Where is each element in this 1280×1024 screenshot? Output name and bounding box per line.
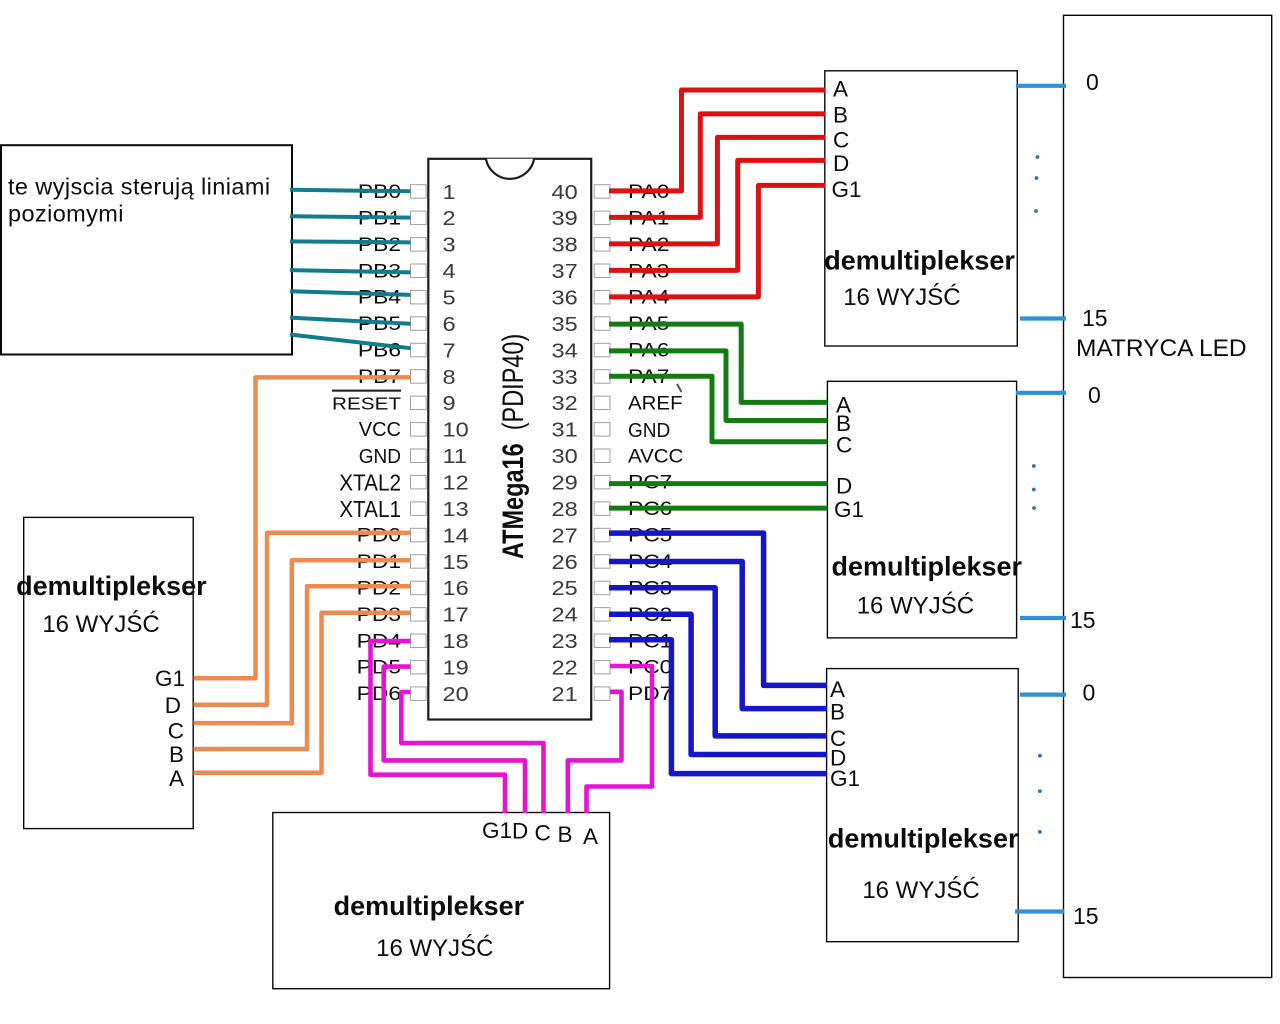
svg-text:PD6: PD6 bbox=[357, 684, 401, 705]
pin 30 (AVCC) bbox=[552, 445, 684, 468]
wire PB7 -> U6 G1 bbox=[194, 377, 411, 678]
pin 22 (PC0) bbox=[552, 656, 673, 679]
pin 28 (PC6) bbox=[552, 497, 673, 520]
pin 8 (PB7) bbox=[358, 365, 456, 388]
pin 25 (PC3) bbox=[552, 577, 673, 600]
wire U3 output 15 bbox=[1020, 607, 1096, 633]
svg-text:AVCC: AVCC bbox=[628, 446, 683, 467]
wire PA2 -> U2 C bbox=[609, 137, 825, 244]
pin 35 (PA5) bbox=[552, 312, 670, 335]
pin 40 (PA0) bbox=[552, 180, 670, 203]
svg-text:22: 22 bbox=[552, 656, 578, 679]
U5 input labels G1 D C B A (top edge) bbox=[482, 818, 598, 849]
wire PC7 -> U3 D bbox=[609, 481, 828, 486]
svg-text:15: 15 bbox=[1073, 903, 1099, 929]
svg-text:C: C bbox=[836, 432, 852, 457]
pin 15 (PD1) bbox=[357, 550, 469, 573]
svg-text:31: 31 bbox=[552, 418, 578, 441]
svg-text:D: D bbox=[836, 473, 852, 498]
svg-text:0: 0 bbox=[1088, 382, 1101, 408]
svg-text:16: 16 bbox=[443, 577, 469, 600]
svg-text:7: 7 bbox=[443, 339, 456, 362]
wire PC5 -> U4 A bbox=[609, 533, 827, 685]
svg-text:1: 1 bbox=[443, 180, 456, 203]
svg-text:AREF: AREF bbox=[628, 393, 683, 414]
svg-text:12: 12 bbox=[443, 471, 469, 494]
svg-text:0: 0 bbox=[1083, 680, 1096, 706]
svg-text:D: D bbox=[512, 819, 528, 844]
svg-text:XTAL2: XTAL2 bbox=[339, 469, 401, 495]
pin 7 (PB6) bbox=[358, 339, 456, 362]
svg-text:A: A bbox=[830, 677, 845, 702]
svg-text:B: B bbox=[558, 822, 573, 847]
svg-text:GND: GND bbox=[628, 419, 670, 442]
svg-text:20: 20 bbox=[443, 682, 469, 705]
wire PD6 -> U5 C bbox=[401, 692, 543, 813]
svg-text:VCC: VCC bbox=[359, 419, 401, 441]
pin 32 (AREF) bbox=[552, 392, 683, 415]
pin 18 (PD4) bbox=[357, 630, 469, 653]
svg-text:18: 18 bbox=[443, 630, 469, 653]
svg-text:C: C bbox=[168, 719, 184, 744]
pin 4 (PB3) bbox=[358, 260, 456, 283]
pin 39 (PA1) bbox=[552, 207, 670, 230]
svg-text:13: 13 bbox=[443, 497, 469, 520]
svg-text:16 WYJŚĆ: 16 WYJŚĆ bbox=[376, 934, 493, 962]
svg-text:15: 15 bbox=[443, 550, 469, 573]
demultiplexer U3 (middle right) bbox=[827, 381, 1022, 638]
pin 17 (PD3) bbox=[357, 603, 469, 626]
wire PD3 -> U6 A bbox=[194, 613, 411, 773]
wire PB5 (row driver 5) bbox=[290, 318, 411, 324]
svg-text:29: 29 bbox=[552, 471, 578, 494]
svg-text:21: 21 bbox=[552, 682, 578, 705]
pin 23 (PC1) bbox=[552, 630, 673, 653]
wire PA0 -> U2 A bbox=[609, 90, 825, 191]
svg-text:te wyjscia sterują liniami: te wyjscia sterują liniami bbox=[8, 174, 270, 200]
pin 36 (PA4) bbox=[552, 286, 670, 309]
pin 12 (XTAL2) bbox=[339, 469, 468, 495]
svg-text:30: 30 bbox=[552, 445, 578, 468]
svg-text:A: A bbox=[833, 76, 848, 101]
pin 10 (VCC) bbox=[359, 418, 469, 441]
wire U2 output 15 bbox=[1020, 305, 1108, 331]
svg-text:15: 15 bbox=[1082, 305, 1108, 331]
svg-text:8: 8 bbox=[443, 365, 456, 388]
svg-text:demultiplekser: demultiplekser bbox=[828, 824, 1019, 854]
ellipsis dots (outputs 1..14 of U3) bbox=[1032, 464, 1036, 510]
svg-text:PB2: PB2 bbox=[358, 235, 401, 256]
wire U3 output 0 bbox=[1016, 382, 1101, 408]
wire PD2 -> U6 B bbox=[194, 586, 411, 749]
pin 14 (PD0) bbox=[357, 524, 469, 547]
svg-text:39: 39 bbox=[552, 207, 578, 230]
svg-text:37: 37 bbox=[552, 260, 578, 283]
svg-text:B: B bbox=[833, 103, 848, 128]
svg-text:17: 17 bbox=[443, 603, 469, 626]
svg-text:35: 35 bbox=[552, 312, 578, 335]
LED matrix box MATRYCA LED bbox=[1064, 15, 1272, 977]
wire PC0 -> U5 A bbox=[587, 666, 653, 813]
wire PC6 -> U3 G1 bbox=[609, 506, 828, 511]
svg-text:2: 2 bbox=[443, 207, 456, 230]
svg-text:D: D bbox=[165, 693, 181, 718]
wire PD1 -> U6 C bbox=[194, 560, 411, 723]
svg-text:demultiplekser: demultiplekser bbox=[824, 246, 1015, 276]
svg-text:G1: G1 bbox=[482, 818, 512, 843]
svg-text:16 WYJŚĆ: 16 WYJŚĆ bbox=[42, 610, 159, 638]
pin 21 (PD7) bbox=[552, 682, 673, 705]
svg-text:PB4: PB4 bbox=[358, 287, 401, 308]
svg-text:23: 23 bbox=[552, 630, 578, 653]
wire PB0 (row driver 0) bbox=[290, 190, 411, 192]
svg-text:32: 32 bbox=[552, 392, 578, 415]
wire PD5 -> U5 D bbox=[384, 667, 525, 813]
svg-text:15: 15 bbox=[1070, 607, 1096, 633]
svg-text:ATMega16 (PDIP40): ATMega16 (PDIP40) bbox=[496, 334, 529, 559]
svg-text:MATRYCA LED: MATRYCA LED bbox=[1076, 335, 1247, 362]
wire PA5 -> U3 A bbox=[609, 324, 828, 402]
svg-text:6: 6 bbox=[443, 312, 456, 335]
wire PA6 -> U3 B bbox=[609, 351, 828, 421]
svg-text:RESET: RESET bbox=[332, 394, 401, 414]
svg-text:0: 0 bbox=[1086, 69, 1099, 95]
svg-text:28: 28 bbox=[552, 497, 578, 520]
wire PA7 -> U3 C bbox=[609, 376, 828, 442]
wire PB2 (row driver 2) bbox=[290, 241, 411, 242]
svg-text:C: C bbox=[535, 821, 551, 846]
demultiplexer U4 (bottom right) bbox=[827, 669, 1019, 942]
svg-text:G1: G1 bbox=[834, 497, 864, 522]
ellipsis dots (outputs 1..14 of U4) bbox=[1038, 754, 1042, 834]
pin 38 (PA2) bbox=[552, 233, 670, 256]
svg-text:A: A bbox=[169, 766, 184, 791]
svg-text:5: 5 bbox=[443, 286, 456, 309]
stray tick mark near PA7/AREF bbox=[677, 384, 682, 392]
svg-text:9: 9 bbox=[443, 392, 456, 415]
U6 input labels G1 D C B A (right edge) bbox=[155, 666, 185, 791]
pin 11 (GND) bbox=[359, 445, 467, 469]
svg-text:G1: G1 bbox=[155, 666, 185, 691]
wire PA4 -> U2 G1 bbox=[609, 185, 825, 297]
svg-text:16 WYJŚĆ: 16 WYJŚĆ bbox=[857, 592, 974, 620]
svg-text:34: 34 bbox=[552, 339, 578, 362]
demultiplexer U5 (bottom center) bbox=[273, 813, 610, 989]
pin 24 (PC2) bbox=[552, 603, 673, 626]
wire PA3 -> U2 D bbox=[609, 160, 825, 270]
pin 13 (XTAL1) bbox=[339, 496, 468, 522]
wire U4 output 15 bbox=[1015, 903, 1099, 929]
pin 34 (PA6) bbox=[552, 339, 670, 362]
svg-text:B: B bbox=[830, 700, 845, 725]
svg-text:40: 40 bbox=[552, 180, 578, 203]
svg-text:10: 10 bbox=[443, 418, 469, 441]
pin 16 (PD2) bbox=[357, 577, 469, 600]
U3 input labels A B C D G1 bbox=[834, 393, 864, 523]
svg-text:25: 25 bbox=[552, 577, 578, 600]
svg-text:3: 3 bbox=[443, 233, 456, 256]
pin 9 (RESET) bbox=[332, 391, 456, 415]
svg-text:B: B bbox=[169, 742, 184, 767]
svg-text:33: 33 bbox=[552, 365, 578, 388]
wire PB1 (row driver 1) bbox=[290, 216, 411, 217]
wire PA1 -> U2 B bbox=[609, 114, 825, 217]
pin 19 (PD5) bbox=[357, 656, 469, 679]
pin 26 (PC4) bbox=[552, 550, 673, 573]
IC U1 ATMega16 (PDIP40) body bbox=[428, 159, 591, 720]
demultiplexer U6 (left) bbox=[16, 517, 207, 828]
svg-text:27: 27 bbox=[552, 524, 578, 547]
svg-text:poziomymi: poziomymi bbox=[8, 201, 124, 227]
wire PD7 -> U5 B bbox=[568, 692, 622, 813]
demultiplexer U2 (top right) bbox=[824, 71, 1017, 346]
svg-text:XTAL1: XTAL1 bbox=[339, 496, 401, 522]
pin 29 (PC7) bbox=[552, 471, 673, 494]
ellipsis dots (outputs 1..14 of U2) bbox=[1034, 155, 1039, 213]
pin 31 (GND) bbox=[552, 418, 671, 442]
svg-text:19: 19 bbox=[443, 656, 469, 679]
pin 6 (PB5) bbox=[358, 312, 456, 335]
svg-text:11: 11 bbox=[443, 445, 467, 468]
svg-text:A: A bbox=[583, 824, 598, 849]
svg-text:16 WYJŚĆ: 16 WYJŚĆ bbox=[862, 876, 979, 904]
wire PC2 -> U4 D bbox=[609, 614, 827, 754]
pin 37 (PA3) bbox=[552, 260, 670, 283]
wire U2 output 0 bbox=[1016, 69, 1099, 95]
wire PB6 (row driver 6) bbox=[290, 335, 411, 349]
svg-text:38: 38 bbox=[552, 233, 578, 256]
svg-text:G1: G1 bbox=[830, 766, 860, 791]
svg-text:GND: GND bbox=[359, 446, 401, 469]
svg-text:G1: G1 bbox=[832, 177, 862, 202]
svg-text:16 WYJŚĆ: 16 WYJŚĆ bbox=[843, 283, 960, 311]
svg-text:C: C bbox=[833, 128, 849, 153]
svg-text:D: D bbox=[833, 151, 849, 176]
U2 input labels A B C D G1 bbox=[832, 76, 862, 202]
wire PC4 -> U4 B bbox=[609, 562, 827, 709]
svg-text:demultiplekser: demultiplekser bbox=[334, 891, 525, 921]
U4 input labels A B C D G1 bbox=[830, 677, 860, 791]
svg-text:demultiplekser: demultiplekser bbox=[16, 571, 207, 601]
svg-text:14: 14 bbox=[443, 524, 469, 547]
pin 5 (PB4) bbox=[358, 286, 456, 309]
pin 3 (PB2) bbox=[358, 233, 456, 256]
wire U4 output 0 bbox=[1020, 680, 1095, 706]
wire PB3 (row driver 3) bbox=[290, 270, 411, 272]
wire PC3 -> U4 C bbox=[609, 588, 827, 736]
wire PD0 -> U6 D bbox=[194, 533, 411, 705]
svg-text:PD2: PD2 bbox=[357, 578, 401, 599]
pin 1 (PB0) bbox=[358, 180, 456, 203]
pin 20 (PD6) bbox=[357, 682, 469, 705]
svg-text:demultiplekser: demultiplekser bbox=[832, 552, 1023, 582]
pin 2 (PB1) bbox=[358, 207, 456, 230]
annotation box: te wyjscia steruja liniami poziomymi bbox=[1, 145, 292, 354]
svg-text:4: 4 bbox=[443, 260, 456, 283]
svg-text:24: 24 bbox=[552, 603, 578, 626]
svg-text:PD0: PD0 bbox=[357, 525, 401, 546]
wire PD4 -> U5 G1 bbox=[371, 641, 506, 813]
pin 33 (PA7) bbox=[552, 365, 670, 388]
svg-text:26: 26 bbox=[552, 550, 578, 573]
wire PB4 (row driver 4) bbox=[290, 291, 411, 295]
svg-text:36: 36 bbox=[552, 286, 578, 309]
pin 27 (PC5) bbox=[552, 524, 673, 547]
wire PC1 -> U4 G1 bbox=[609, 640, 827, 774]
